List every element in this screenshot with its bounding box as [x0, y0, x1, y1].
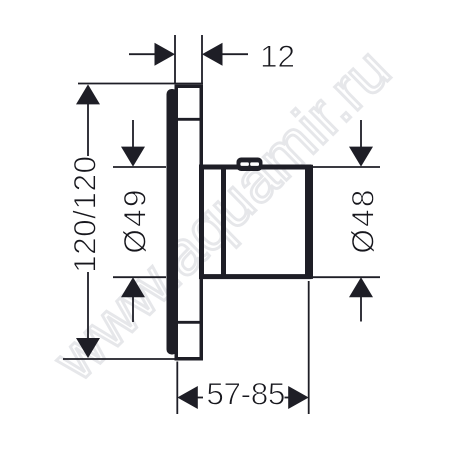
- dim 57-85: left stub: [196, 397, 203, 399]
- dim 120/120: top extension line: [78, 83, 203, 85]
- handle right end edge: [305, 165, 313, 279]
- dim 12: left arrowhead: [155, 43, 176, 66]
- dim O48: top arrow tail: [360, 120, 362, 147]
- svg-text:57-85: 57-85: [206, 376, 285, 412]
- dim 12: left dimension line: [129, 53, 156, 55]
- dim O49: top arrowhead: [121, 147, 145, 167]
- plate inner line bottom: [178, 321, 200, 324]
- handle body outline: [202, 167, 310, 277]
- handle grip divider: [221, 165, 226, 279]
- dim 12: right extension line: [201, 35, 203, 84]
- dim O48: top arrowhead: [349, 147, 373, 167]
- dim 120/120: top arrowhead: [76, 84, 100, 104]
- dim O48: bottom arrow tail: [360, 297, 362, 322]
- dim O48: bottom extension line: [313, 276, 380, 278]
- dim 57-85: right arrowhead: [288, 386, 309, 409]
- dim 57-85: right extension line: [308, 281, 310, 414]
- dim O49: top arrow tail: [132, 120, 134, 147]
- dim O48: bottom arrowhead: [349, 277, 373, 297]
- dim 12: right dimension line: [221, 53, 248, 55]
- watermark www.aquamir.ru: [40, 35, 404, 394]
- dim 120/120: dimension line lower segment: [87, 272, 89, 339]
- plate front edge bar: [167, 89, 178, 355]
- dim 57-85: left extension line: [176, 362, 178, 415]
- dim 120/120: dimension line upper segment: [87, 103, 89, 156]
- dim 12: right arrowhead: [202, 43, 223, 66]
- safety-stop tab right slot: [250, 162, 259, 166]
- svg-text:Ø49: Ø49: [117, 187, 153, 253]
- wall plate outline (side view): [176, 86, 201, 359]
- safety-stop tab left slot: [240, 162, 249, 166]
- dim O48: top extension line: [313, 166, 380, 168]
- dim 57-85: right stub: [283, 397, 290, 399]
- svg-text:120/120: 120/120: [67, 156, 103, 273]
- dim 12: left extension line: [174, 35, 176, 84]
- dim O49: top extension line: [113, 166, 166, 168]
- dim O49: bottom extension line: [113, 276, 166, 278]
- svg-text:Ø48: Ø48: [344, 187, 380, 253]
- dim 120/120: bottom extension line: [63, 358, 203, 360]
- svg-text:12: 12: [260, 38, 295, 74]
- dim O49: bottom arrowhead: [121, 277, 145, 297]
- plate inner line top: [178, 118, 200, 121]
- dim O49: bottom arrow tail: [132, 297, 134, 322]
- safety-stop tab body: [237, 158, 263, 172]
- dim 57-85: left arrowhead: [177, 386, 198, 409]
- dim 120/120: bottom arrowhead: [76, 338, 100, 358]
